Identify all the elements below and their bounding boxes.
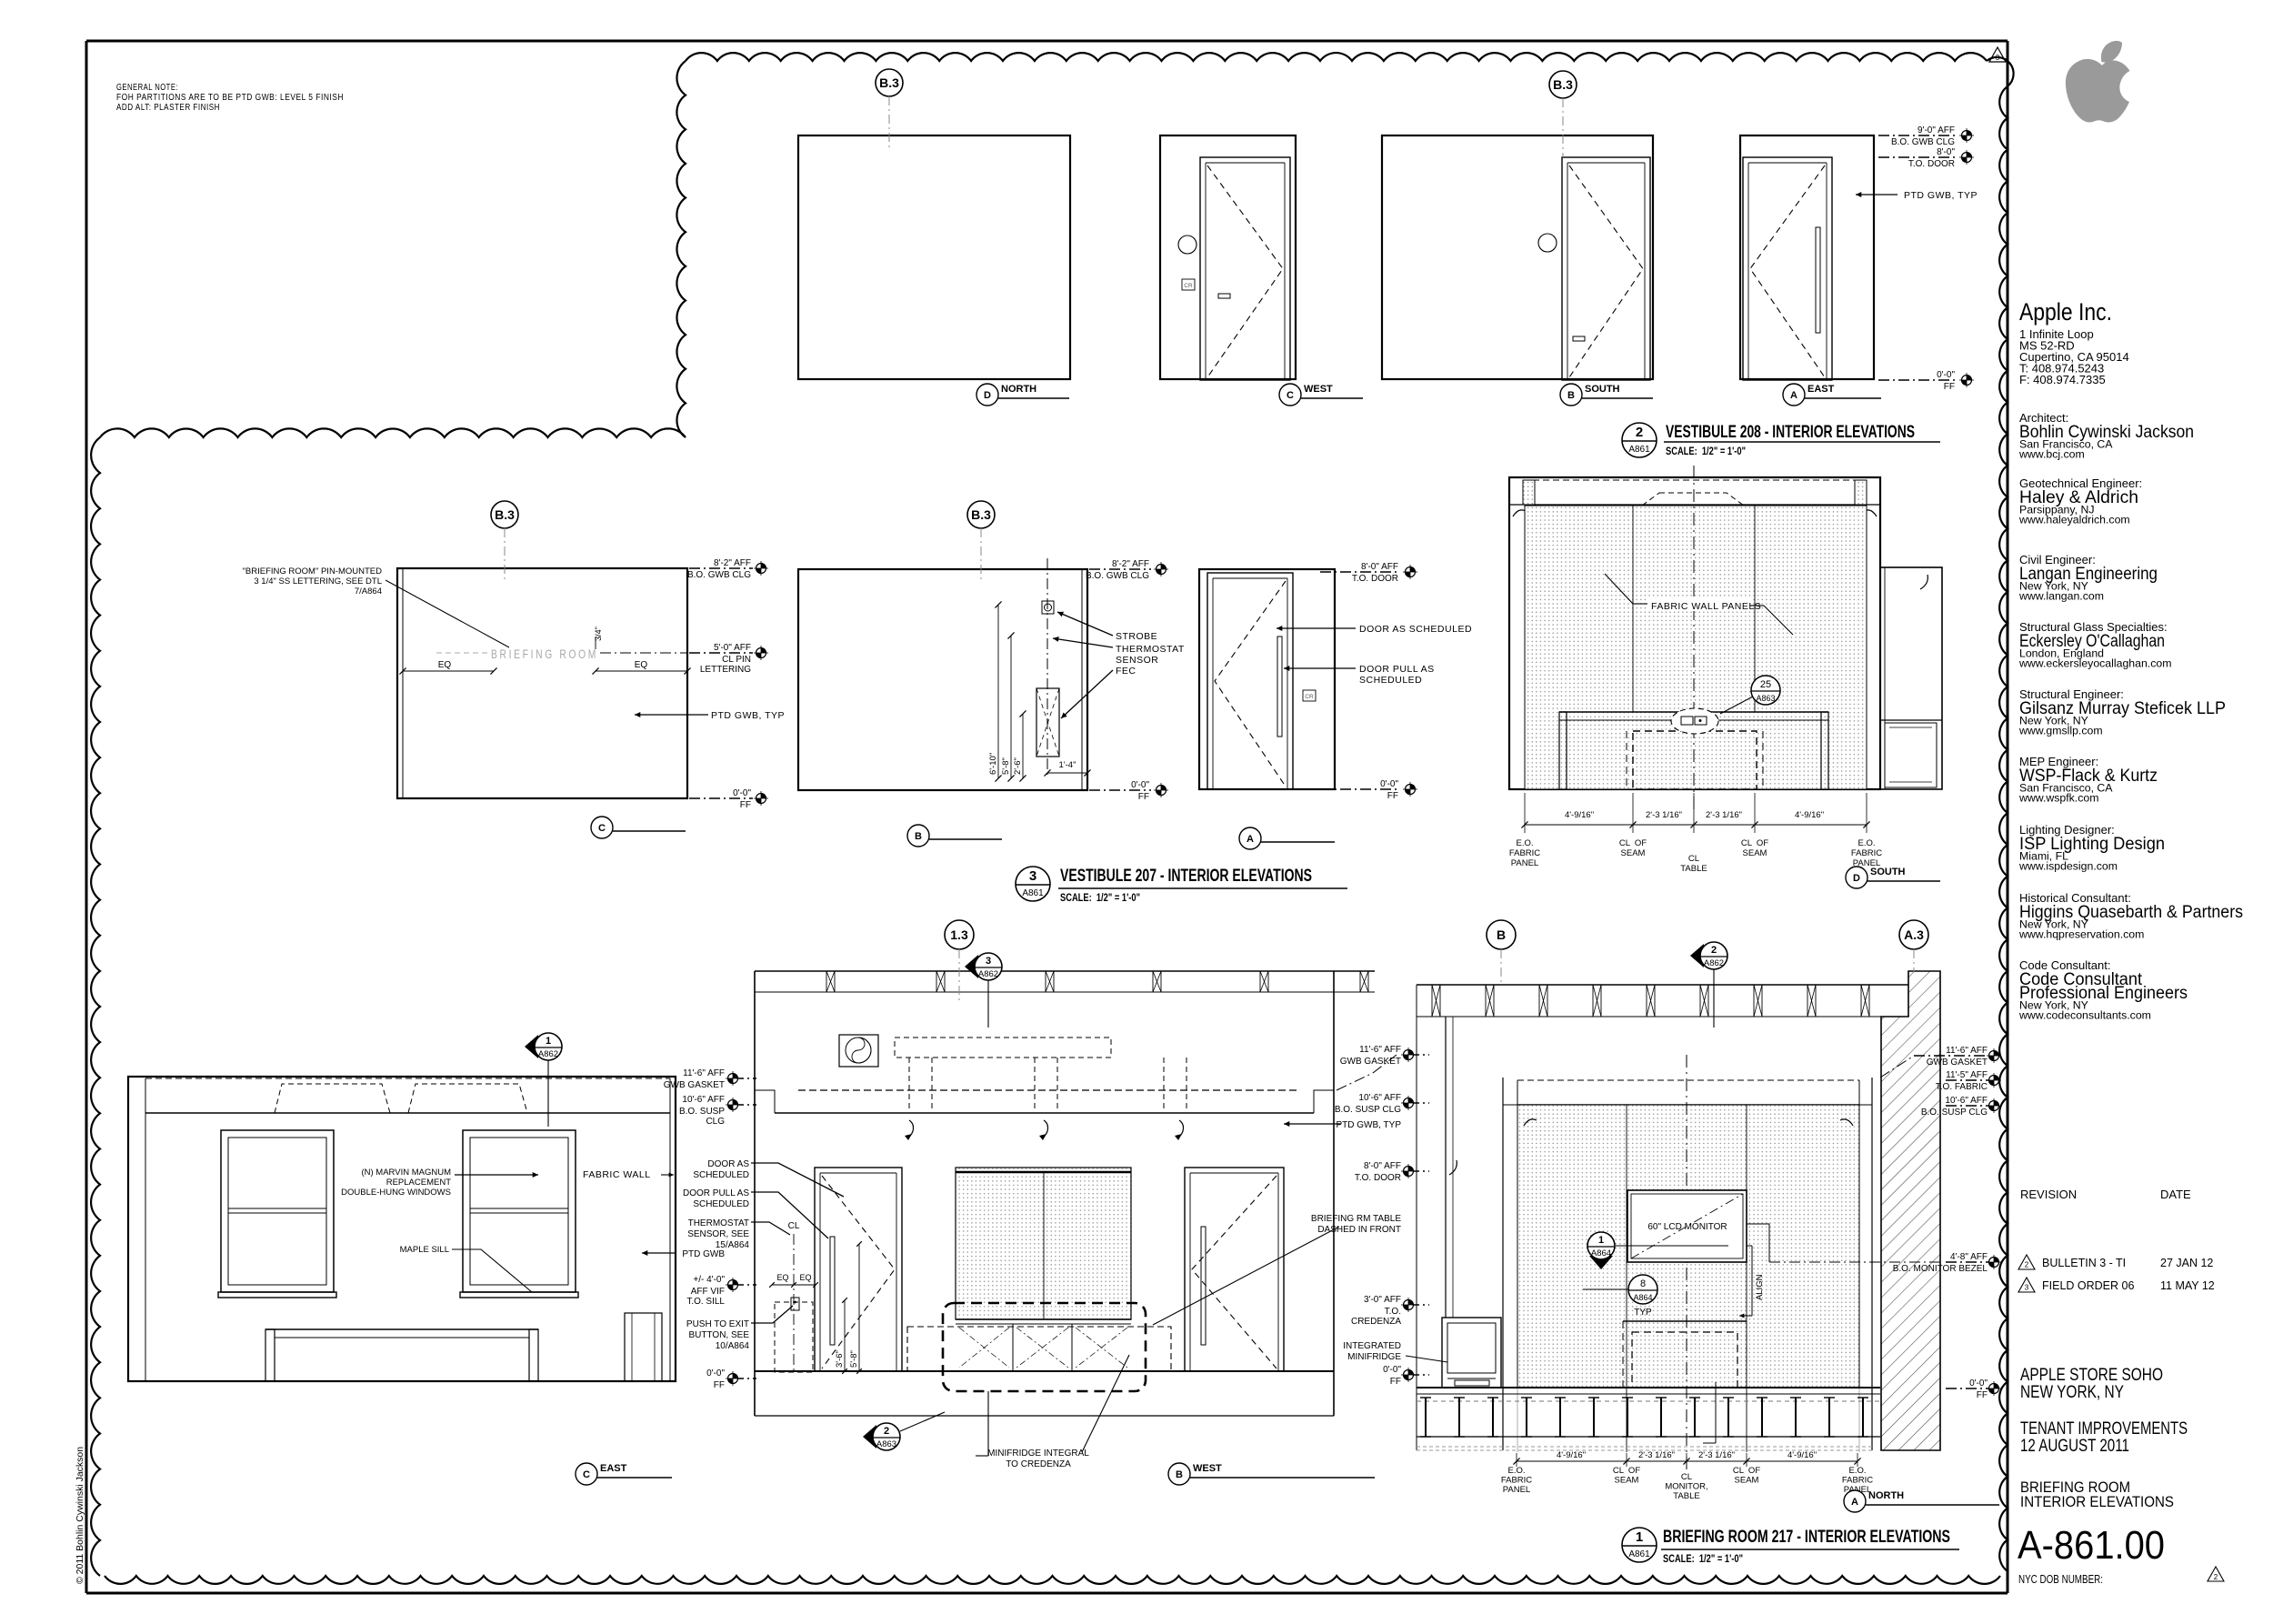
svg-text:27 JAN 12: 27 JAN 12	[2160, 1257, 2213, 1269]
svg-text:VESTIBULE 207 - INTERIOR ELEVA: VESTIBULE 207 - INTERIOR ELEVATIONS	[1060, 867, 1312, 886]
svg-text:A862: A862	[978, 969, 998, 979]
svg-text:A862: A862	[538, 1049, 558, 1059]
svg-text:11'-5" AFF: 11'-5" AFF	[1946, 1070, 1988, 1080]
svg-text:FF: FF	[1944, 382, 1955, 392]
svg-text:www.gmsllp.com: www.gmsllp.com	[2018, 725, 2103, 737]
svg-text:SENSOR: SENSOR	[1116, 655, 1158, 666]
svg-text:THERMOSTAT: THERMOSTAT	[688, 1218, 749, 1228]
svg-text:www.bcj.com: www.bcj.com	[2018, 448, 2085, 461]
svg-text:DOOR PULL AS: DOOR PULL AS	[1359, 664, 1435, 675]
svg-text:TO CREDENZA: TO CREDENZA	[1006, 1459, 1071, 1469]
svg-text:B: B	[915, 831, 922, 842]
svg-text:A861: A861	[1628, 1549, 1650, 1559]
svg-text:BRIEFING ROOM 217 - INTERIOR E: BRIEFING ROOM 217 - INTERIOR ELEVATIONS	[1663, 1528, 1950, 1547]
svg-text:3: 3	[986, 956, 991, 967]
svg-text:A864: A864	[1591, 1248, 1611, 1258]
svg-text:9'-0" AFF: 9'-0" AFF	[1918, 125, 1955, 135]
svg-text:TENANT IMPROVEMENTS: TENANT IMPROVEMENTS	[2020, 1419, 2188, 1439]
svg-text:PTD GWB, TYP: PTD GWB, TYP	[1904, 190, 1978, 201]
svg-text:EQ: EQ	[799, 1273, 811, 1282]
svg-text:PTD GWB, TYP: PTD GWB, TYP	[1337, 1120, 1402, 1130]
svg-text:B: B	[1176, 1469, 1183, 1480]
svg-text:T.O. DOOR: T.O. DOOR	[1908, 159, 1955, 169]
svg-text:B.O. SUSP CLG: B.O. SUSP CLG	[1335, 1105, 1401, 1115]
svg-text:B.O. SUSP CLG: B.O. SUSP CLG	[1921, 1108, 1988, 1118]
svg-text:6'-10": 6'-10"	[988, 753, 998, 775]
svg-text:LETTERING: LETTERING	[700, 665, 751, 675]
svg-text:SEAM: SEAM	[1743, 848, 1767, 858]
svg-text:FOH PARTITIONS ARE TO BE PTD G: FOH PARTITIONS ARE TO BE PTD GWB: LEVEL …	[116, 93, 344, 103]
svg-text:E.O.: E.O.	[1857, 838, 1875, 848]
svg-text:FF: FF	[1387, 791, 1398, 801]
svg-text:REVISION: REVISION	[2020, 1188, 2077, 1201]
svg-text:MAPLE SILL: MAPLE SILL	[400, 1245, 449, 1255]
svg-text:+/- 4'-0": +/- 4'-0"	[693, 1275, 725, 1285]
svg-text:8'-0" AFF: 8'-0" AFF	[1364, 1161, 1401, 1171]
svg-text:SEAM: SEAM	[1615, 1476, 1639, 1486]
svg-text:B.3: B.3	[1553, 77, 1573, 92]
svg-text:THERMOSTAT: THERMOSTAT	[1116, 644, 1185, 655]
svg-text:5'-8": 5'-8"	[849, 1350, 859, 1368]
svg-text:3: 3	[1029, 868, 1036, 884]
svg-text:www.eckersleyocallaghan.com: www.eckersleyocallaghan.com	[2018, 657, 2171, 670]
svg-text:C: C	[598, 823, 606, 834]
svg-text:4'-9/16": 4'-9/16"	[1795, 810, 1824, 820]
svg-text:B.O. GWB CLG: B.O. GWB CLG	[1086, 571, 1149, 581]
svg-text:C: C	[583, 1469, 590, 1480]
svg-text:D: D	[1853, 873, 1860, 884]
svg-text:5'-8": 5'-8"	[1001, 757, 1011, 775]
svg-text:1: 1	[546, 1036, 551, 1047]
svg-text:10'-6" AFF: 10'-6" AFF	[682, 1095, 725, 1105]
svg-text:3: 3	[1996, 54, 2000, 62]
svg-text:CL OF: CL OF	[1619, 838, 1647, 848]
svg-text:2: 2	[884, 1426, 889, 1437]
svg-text:2: 2	[1636, 425, 1643, 440]
svg-text:www.haleyaldrich.com: www.haleyaldrich.com	[2018, 514, 2130, 526]
svg-text:CL OF: CL OF	[1613, 1466, 1640, 1476]
svg-text:DOOR PULL AS: DOOR PULL AS	[683, 1188, 749, 1198]
svg-text:BRIEFING ROOM: BRIEFING ROOM	[491, 647, 598, 661]
svg-text:PTD GWB: PTD GWB	[682, 1249, 725, 1259]
svg-text:EQ: EQ	[635, 660, 648, 670]
svg-text:A: A	[1247, 834, 1254, 845]
svg-text:B.O. GWB CLG: B.O. GWB CLG	[687, 570, 751, 580]
svg-text:T.O.: T.O.	[1385, 1307, 1401, 1317]
svg-text:PUSH TO EXIT: PUSH TO EXIT	[686, 1319, 749, 1329]
svg-text:TABLE: TABLE	[1680, 864, 1707, 874]
svg-text:T.O. FABRIC: T.O. FABRIC	[1936, 1082, 1988, 1092]
svg-text:ALIGN: ALIGN	[1755, 1274, 1765, 1300]
svg-text:12 AUGUST 2011: 12 AUGUST 2011	[2020, 1437, 2129, 1456]
svg-text:DOUBLE-HUNG WINDOWS: DOUBLE-HUNG WINDOWS	[341, 1188, 451, 1198]
svg-text:FF: FF	[714, 1380, 725, 1390]
svg-text:0'-0": 0'-0"	[1131, 780, 1149, 790]
svg-text:60" LCD MONITOR: 60" LCD MONITOR	[1647, 1222, 1727, 1232]
svg-text:5'-0" AFF: 5'-0" AFF	[714, 643, 751, 653]
svg-text:CL: CL	[788, 1221, 800, 1231]
svg-text:WEST: WEST	[1193, 1463, 1222, 1474]
svg-text:FF: FF	[1390, 1377, 1401, 1387]
svg-text:MINIFRIDGE: MINIFRIDGE	[1347, 1352, 1401, 1362]
svg-text:PTD GWB, TYP: PTD GWB, TYP	[711, 710, 785, 721]
svg-text:SOUTH: SOUTH	[1870, 867, 1906, 877]
svg-text:SEAM: SEAM	[1621, 848, 1646, 858]
svg-text:DATE: DATE	[2160, 1188, 2191, 1201]
svg-text:A: A	[1790, 390, 1797, 401]
svg-text:DOOR AS: DOOR AS	[707, 1159, 749, 1169]
svg-text:B.O. MONITOR BEZEL: B.O. MONITOR BEZEL	[1893, 1264, 1988, 1274]
svg-text:A863: A863	[1756, 694, 1775, 703]
svg-text:3 1/4" SS LETTERING, SEE DTL: 3 1/4" SS LETTERING, SEE DTL	[254, 576, 382, 586]
svg-text:BRIEFING RM TABLE: BRIEFING RM TABLE	[1311, 1214, 1401, 1224]
svg-text:www.hqpreservation.com: www.hqpreservation.com	[2018, 928, 2144, 941]
svg-text:GWB GASKET: GWB GASKET	[1927, 1058, 1988, 1068]
svg-text:FABRIC: FABRIC	[1851, 848, 1882, 858]
svg-text:CL: CL	[1681, 1472, 1692, 1482]
svg-text:11 MAY 12: 11 MAY 12	[2160, 1279, 2215, 1292]
svg-text:2'-6": 2'-6"	[1013, 757, 1023, 775]
svg-text:DOOR AS SCHEDULED: DOOR AS SCHEDULED	[1359, 624, 1472, 635]
svg-text:1: 1	[1598, 1235, 1604, 1246]
svg-text:11'-6" AFF: 11'-6" AFF	[1359, 1045, 1401, 1055]
svg-text:1.3: 1.3	[950, 927, 968, 942]
svg-text:2'-3 1/16": 2'-3 1/16"	[1638, 1450, 1675, 1460]
svg-text:CR: CR	[1184, 283, 1193, 289]
svg-text:BUTTON, SEE: BUTTON, SEE	[689, 1330, 750, 1340]
svg-text:TABLE: TABLE	[1673, 1491, 1699, 1501]
svg-text:3: 3	[2025, 1284, 2029, 1292]
svg-text:A861: A861	[1022, 888, 1044, 898]
svg-text:© 2011 Bohlin Cywinski Jackson: © 2011 Bohlin Cywinski Jackson	[75, 1447, 85, 1584]
svg-text:A863: A863	[876, 1439, 896, 1449]
svg-text:FABRIC WALL PANELS: FABRIC WALL PANELS	[1651, 601, 1761, 612]
svg-text:2'-3 1/16": 2'-3 1/16"	[1646, 810, 1682, 820]
svg-text:A864: A864	[1633, 1293, 1652, 1302]
svg-text:2'-3 1/16": 2'-3 1/16"	[1706, 810, 1742, 820]
svg-text:INTEGRATED: INTEGRATED	[1343, 1341, 1401, 1351]
svg-text:8'-0" AFF: 8'-0" AFF	[1361, 562, 1398, 572]
svg-text:10'-6" AFF: 10'-6" AFF	[1945, 1096, 1988, 1106]
svg-text:AFF VIF: AFF VIF	[691, 1287, 725, 1297]
svg-text:CREDENZA: CREDENZA	[1351, 1317, 1401, 1327]
svg-text:CLG: CLG	[706, 1117, 725, 1127]
svg-text:A862: A862	[1704, 958, 1724, 968]
svg-text:10/A864: 10/A864	[716, 1341, 750, 1351]
svg-text:FF: FF	[1138, 792, 1149, 802]
svg-text:DASHED IN FRONT: DASHED IN FRONT	[1317, 1225, 1401, 1235]
svg-text:3'-0" AFF: 3'-0" AFF	[1364, 1295, 1401, 1305]
svg-text:FF: FF	[1977, 1390, 1988, 1400]
svg-text:PANEL: PANEL	[1503, 1485, 1530, 1495]
svg-text:SCALE: 1/2" = 1'-0": SCALE: 1/2" = 1'-0"	[1666, 445, 1746, 457]
svg-text:E.O.: E.O.	[1848, 1466, 1866, 1476]
svg-text:STROBE: STROBE	[1116, 631, 1157, 642]
svg-text:EAST: EAST	[1807, 384, 1835, 395]
svg-text:WEST: WEST	[1304, 384, 1333, 395]
svg-text:B.3: B.3	[971, 507, 991, 522]
svg-text:EAST: EAST	[600, 1463, 627, 1474]
svg-text:B.3: B.3	[879, 75, 899, 90]
svg-text:CL OF: CL OF	[1741, 838, 1768, 848]
svg-text:www.langan.com: www.langan.com	[2018, 590, 2104, 603]
svg-text:2: 2	[2214, 1573, 2218, 1581]
svg-text:SCHEDULED: SCHEDULED	[1359, 675, 1422, 686]
svg-text:4'-9/16": 4'-9/16"	[1787, 1450, 1817, 1460]
svg-text:www.wspfk.com: www.wspfk.com	[2018, 792, 2098, 805]
svg-text:0'-0": 0'-0"	[733, 788, 751, 798]
svg-text:MINIFRIDGE INTEGRAL: MINIFRIDGE INTEGRAL	[987, 1449, 1089, 1459]
svg-text:10'-6" AFF: 10'-6" AFF	[1358, 1093, 1401, 1103]
svg-text:www.ispdesign.com: www.ispdesign.com	[2018, 860, 2118, 873]
svg-text:NORTH: NORTH	[1868, 1490, 1904, 1501]
svg-text:2: 2	[2025, 1261, 2029, 1269]
svg-text:0'-0": 0'-0"	[1937, 370, 1955, 380]
svg-text:2: 2	[1711, 945, 1717, 956]
svg-text:REPLACEMENT: REPLACEMENT	[386, 1178, 451, 1188]
svg-text:SCHEDULED: SCHEDULED	[693, 1170, 749, 1180]
svg-text:E.O.: E.O.	[1507, 1466, 1525, 1476]
svg-text:0'-0": 0'-0"	[1969, 1378, 1988, 1388]
svg-text:Apple Inc.: Apple Inc.	[2019, 298, 2112, 326]
svg-text:0'-0": 0'-0"	[706, 1368, 725, 1378]
svg-text:T.O. DOOR: T.O. DOOR	[1355, 1173, 1401, 1183]
svg-text:3/4": 3/4"	[594, 627, 603, 641]
svg-text:2'-3 1/16": 2'-3 1/16"	[1698, 1450, 1735, 1460]
svg-text:B: B	[1497, 927, 1506, 942]
svg-text:E.O.: E.O.	[1516, 838, 1533, 848]
svg-text:B: B	[1567, 390, 1575, 401]
svg-text:"BRIEFING ROOM" PIN-MOUNTED: "BRIEFING ROOM" PIN-MOUNTED	[243, 566, 383, 576]
svg-text:1'-4": 1'-4"	[1059, 760, 1076, 770]
svg-text:B.O. GWB CLG: B.O. GWB CLG	[1891, 137, 1955, 147]
svg-text:8'-0": 8'-0"	[1937, 147, 1955, 157]
svg-text:0'-0": 0'-0"	[1383, 1365, 1401, 1375]
svg-text:TYP: TYP	[1634, 1308, 1652, 1318]
svg-text:4'-8" AFF: 4'-8" AFF	[1950, 1252, 1988, 1262]
svg-text:FABRIC: FABRIC	[1509, 848, 1540, 858]
svg-text:D: D	[984, 390, 991, 401]
svg-text:ADD ALT: PLASTER FINISH: ADD ALT: PLASTER FINISH	[116, 103, 220, 113]
svg-text:FEC: FEC	[1116, 666, 1136, 677]
svg-text:GWB GASKET: GWB GASKET	[664, 1080, 725, 1090]
svg-text:25: 25	[1760, 679, 1771, 690]
svg-text:EQ: EQ	[438, 660, 452, 670]
svg-text:T.O. SILL: T.O. SILL	[686, 1297, 725, 1307]
svg-text:FABRIC WALL: FABRIC WALL	[583, 1169, 651, 1180]
svg-text:PANEL: PANEL	[1511, 858, 1538, 868]
svg-text:F: 408.974.7335: F: 408.974.7335	[2019, 373, 2106, 386]
svg-text:SCHEDULED: SCHEDULED	[693, 1199, 749, 1209]
svg-text:SCALE: 1/2" = 1'-0": SCALE: 1/2" = 1'-0"	[1663, 1552, 1743, 1565]
svg-text:SOUTH: SOUTH	[1585, 384, 1620, 395]
svg-text:3'-6": 3'-6"	[835, 1350, 845, 1368]
svg-text:CL OF: CL OF	[1733, 1466, 1760, 1476]
svg-text:SCALE: 1/2" = 1'-0": SCALE: 1/2" = 1'-0"	[1060, 891, 1140, 904]
svg-text:0'-0": 0'-0"	[1380, 779, 1398, 789]
svg-text:11'-6" AFF: 11'-6" AFF	[1946, 1046, 1988, 1056]
svg-text:NEW YORK, NY: NEW YORK, NY	[2020, 1383, 2124, 1402]
svg-text:SENSOR, SEE: SENSOR, SEE	[687, 1229, 749, 1239]
svg-text:APPLE STORE SOHO: APPLE STORE SOHO	[2020, 1366, 2163, 1385]
svg-text:INTERIOR ELEVATIONS: INTERIOR ELEVATIONS	[2020, 1493, 2174, 1510]
svg-text:CR: CR	[1305, 694, 1314, 700]
svg-text:1: 1	[1636, 1529, 1643, 1545]
svg-text:CL: CL	[1688, 854, 1699, 864]
svg-text:FF: FF	[740, 800, 751, 810]
svg-text:4'-9/16": 4'-9/16"	[1557, 1450, 1586, 1460]
svg-text:VESTIBULE 208 - INTERIOR ELEVA: VESTIBULE 208 - INTERIOR ELEVATIONS	[1666, 423, 1915, 442]
svg-text:MONITOR,: MONITOR,	[1665, 1482, 1707, 1492]
svg-text:C: C	[1287, 390, 1294, 401]
svg-text:EQ: EQ	[776, 1273, 788, 1282]
svg-text:B.3: B.3	[495, 507, 515, 522]
svg-text:FIELD ORDER 06: FIELD ORDER 06	[2042, 1279, 2134, 1292]
svg-text:7/A864: 7/A864	[355, 586, 382, 596]
svg-text:11'-6" AFF: 11'-6" AFF	[683, 1068, 725, 1078]
svg-text:A861: A861	[1628, 445, 1650, 455]
svg-text:NYC DOB NUMBER:: NYC DOB NUMBER:	[2018, 1573, 2103, 1586]
svg-text:B.O. SUSP: B.O. SUSP	[679, 1107, 725, 1117]
svg-text:8'-2" AFF: 8'-2" AFF	[1112, 559, 1149, 569]
svg-text:4'-9/16": 4'-9/16"	[1565, 810, 1594, 820]
svg-text:A.3: A.3	[1904, 927, 1924, 942]
svg-text:(N) MARVIN MAGNUM: (N) MARVIN MAGNUM	[361, 1168, 451, 1178]
svg-text:8'-2" AFF: 8'-2" AFF	[714, 558, 751, 568]
svg-text:A: A	[1851, 1497, 1858, 1508]
svg-text:NORTH: NORTH	[1001, 384, 1036, 395]
svg-text:GENERAL NOTE:: GENERAL NOTE:	[116, 83, 178, 93]
svg-text:CL PIN: CL PIN	[722, 655, 751, 665]
svg-text:FABRIC: FABRIC	[1501, 1476, 1532, 1486]
svg-text:BULLETIN 3 - TI: BULLETIN 3 - TI	[2042, 1257, 2126, 1269]
svg-text:A-861.00: A-861.00	[2018, 1523, 2165, 1568]
svg-text:www.codeconsultants.com: www.codeconsultants.com	[2018, 1009, 2151, 1022]
svg-text:FABRIC: FABRIC	[1842, 1476, 1873, 1486]
svg-text:SEAM: SEAM	[1735, 1476, 1759, 1486]
svg-text:8: 8	[1640, 1278, 1646, 1289]
svg-text:T.O. DOOR: T.O. DOOR	[1352, 574, 1398, 584]
